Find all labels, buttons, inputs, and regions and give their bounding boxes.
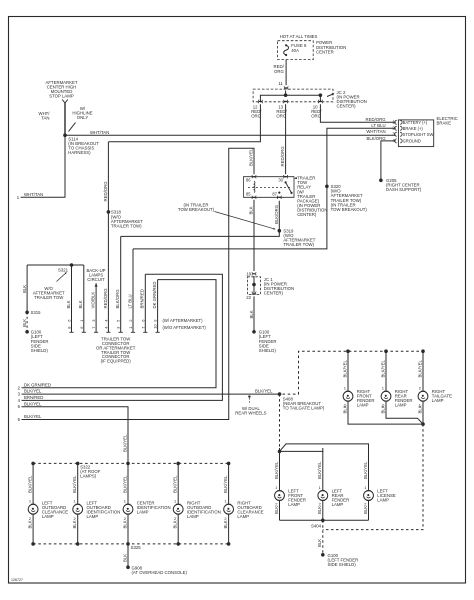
wire BLK/YEL LEFT OUTBOARD CLEARANCE LAMP: [28, 463, 34, 504]
splice S320: [325, 184, 367, 212]
lamp RIGHT TAILGATE LAMP: [418, 389, 452, 403]
svg-text:BLK/YEL: BLK/YEL: [122, 475, 127, 493]
wire RED/ORG JC2 pin 13 down to relay pin 30: [280, 104, 286, 174]
svg-text:BLK/YEL: BLK/YEL: [24, 414, 42, 419]
svg-text:BLK/YEL: BLK/YEL: [122, 434, 127, 452]
wire BLK down to S315: [22, 265, 27, 312]
svg-text:BLK: BLK: [363, 506, 368, 514]
svg-text:BLK: BLK: [66, 300, 71, 308]
splice S404: [311, 519, 325, 529]
svg-text:BLK: BLK: [342, 405, 347, 413]
svg-text:BLK: BLK: [173, 520, 178, 528]
junction block JC2 (in Power Distribution Center): [253, 89, 367, 109]
back-up lamps circuit arrow: [86, 268, 105, 287]
wire BLK S315 to ground G100 (dashed): [22, 312, 27, 332]
svg-text:CENTER): CENTER): [297, 212, 317, 217]
svg-text:LAMP: LAMP: [395, 403, 407, 408]
node rail junction at RIGHT FRONT lamp: [346, 349, 350, 353]
wire BLK JC1 pin 22 to ground G100: [249, 296, 254, 331]
wire BLK/ORG into trailer tow connector: [115, 236, 123, 332]
svg-text:LAMP: LAMP: [332, 502, 344, 507]
svg-text:(W/O AFTERMARKET): (W/O AFTERMARKET): [163, 325, 207, 330]
wire BLK dashed right lamps ground to S404: [323, 424, 423, 529]
wire BLK left lamps ground bus: [280, 519, 369, 521]
svg-text:BLK: BLK: [248, 206, 253, 214]
wire BLK right tailgate lamp to ground junction: [422, 401, 424, 424]
lamp CENTER IDENTIFICATION LAMP: [123, 501, 171, 515]
svg-text:TOW BREAKOUT): TOW BREAKOUT): [178, 207, 215, 212]
svg-text:22: 22: [246, 295, 251, 300]
splice S321 (w/o aftermarket trailer tow): [33, 263, 74, 300]
svg-text:S321: S321: [58, 267, 69, 272]
svg-text:TRAILER TOW): TRAILER TOW): [283, 242, 314, 247]
svg-text:BLK: BLK: [122, 554, 127, 562]
lamp LEFT OUTBOARD IDENTIFICATION LAMP: [73, 501, 121, 519]
wire BRN/RED into trailer tow connector: [140, 274, 148, 332]
svg-text:LT BLU: LT BLU: [371, 123, 385, 128]
svg-text:LAMP: LAMP: [237, 514, 249, 519]
svg-text:BLK/YEL: BLK/YEL: [223, 475, 228, 493]
svg-text:BLK: BLK: [417, 405, 422, 413]
ground G100 (left fender side shield) bottom: [321, 553, 358, 567]
wire BLK ground RIGHT OUTBOARD IDENTIFICATION LAMP: [173, 514, 179, 544]
wire BLK/YEL left edge row feeding roof lamps rail: [18, 401, 128, 463]
svg-text:SIDE SHIELD): SIDE SHIELD): [328, 562, 357, 567]
svg-text:BLK/YEL: BLK/YEL: [380, 359, 385, 377]
wire BLK into trailer tow connector: [66, 265, 74, 332]
electric brake controller box: [395, 116, 458, 147]
svg-text:LT BLU: LT BLU: [127, 294, 132, 308]
wire BLK/YEL feed RIGHT FRONT FENDER LAMP: [342, 351, 348, 391]
wire BLK/YEL RIGHT OUTBOARD IDENTIFICATION LAMP: [173, 463, 179, 504]
svg-text:40A: 40A: [291, 48, 299, 53]
node right lamps ground junction: [421, 422, 425, 426]
svg-text:TO TAILGATE LAMP): TO TAILGATE LAMP): [283, 405, 325, 410]
wire BLK ground LEFT OUTBOARD CLEARANCE LAMP: [28, 514, 34, 544]
svg-text:CENTER: CENTER: [316, 49, 334, 54]
svg-text:BLK: BLK: [223, 520, 228, 528]
wire WHT/TAN stop lamp down to S114: [39, 103, 65, 135]
svg-text:DK GRN/RED: DK GRN/RED: [24, 382, 51, 387]
svg-text:GROUND: GROUND: [403, 139, 421, 144]
W/ HIGHLINE ONLY note: [69, 106, 93, 132]
splice S315: [25, 310, 41, 315]
svg-text:TRAILER TOW): TRAILER TOW): [111, 224, 142, 229]
wire BLK ground LEFT LICENSE LAMP: [363, 500, 369, 520]
svg-text:BLK/YEL: BLK/YEL: [274, 461, 279, 479]
svg-text:BLK: BLK: [317, 539, 322, 547]
wire BLK right rear fender lamp to ground junction: [386, 401, 423, 424]
splice S114 (in breakout to chassis harness): [63, 133, 99, 155]
svg-text:BLK/YEL: BLK/YEL: [342, 359, 347, 377]
wire WHT/TAN S114 down-left to left edge pin 1: [17, 135, 65, 200]
svg-text:19: 19: [246, 271, 251, 276]
svg-text:TRAILER TOW: TRAILER TOW: [34, 295, 64, 300]
svg-text:LAMP: LAMP: [187, 514, 199, 519]
svg-text:LAMP: LAMP: [377, 497, 389, 502]
svg-text:VIO/BLK: VIO/BLK: [91, 292, 96, 309]
wire RED/ORG into trailer tow connector: [103, 142, 111, 332]
svg-text:STOP LAMP: STOP LAMP: [49, 94, 74, 99]
wire BLK S321 horizontal: [27, 264, 84, 266]
svg-text:BLK/ORG: BLK/ORG: [274, 204, 279, 224]
svg-text:CENTER): CENTER): [337, 104, 357, 109]
wire BLK ground RIGHT TAILGATE LAMP: [417, 402, 422, 413]
wire BLK ground LEFT FRONT FENDER LAMP: [274, 500, 280, 520]
wire RED/ORG JC2 pin 10 to electric brake pin 1: [320, 104, 395, 124]
wire BLK/YEL LEFT FRONT FENDER LAMP: [274, 448, 280, 491]
svg-text:WHT/TAN: WHT/TAN: [366, 129, 385, 134]
svg-text:SHIELD): SHIELD): [31, 348, 49, 353]
wire BLK/YEL dashed roof lamps feed rail: [33, 462, 229, 464]
splice S408 (near breakout to tailgate lamp): [278, 392, 325, 410]
svg-text:SHIELD): SHIELD): [259, 348, 277, 353]
JC2 pin 10 label: [311, 104, 322, 118]
svg-text:BATTERY (+): BATTERY (+): [403, 120, 428, 125]
svg-text:S404: S404: [311, 524, 322, 529]
svg-text:RED/ORG: RED/ORG: [103, 181, 108, 202]
wire BLK into trailer tow connector: [78, 265, 86, 332]
lamp LEFT REAR FENDER LAMP: [318, 488, 349, 507]
svg-text:87: 87: [272, 192, 277, 197]
svg-text:BLK/ORG: BLK/ORG: [115, 289, 120, 309]
wire BLK/ORG electric brake pin 4 to ground G205: [366, 136, 395, 181]
lamp RIGHT FRONT FENDER LAMP: [343, 389, 374, 408]
svg-text:BLK/YEL: BLK/YEL: [417, 359, 422, 377]
node rail junctions RIGHT OUTBOARD IDENTIFICATION LAMP: [176, 462, 180, 466]
svg-text:BLK/YEL: BLK/YEL: [28, 475, 33, 493]
svg-text:STOPLIGHT SW: STOPLIGHT SW: [403, 132, 434, 137]
wire BRN/RED connector to left edge row 4: [18, 274, 223, 403]
wire RED/ORG fuse to JC2 pin 11: [274, 60, 289, 90]
svg-text:BLK: BLK: [72, 520, 77, 528]
lamp LEFT FRONT FENDER LAMP: [275, 488, 306, 507]
svg-text:CENTER): CENTER): [264, 291, 284, 296]
svg-text:30: 30: [278, 178, 283, 183]
node rail junction at RIGHT REAR lamp: [384, 349, 388, 353]
svg-text:BRAKE: BRAKE: [437, 121, 452, 126]
lamp LEFT OUTBOARD CLEARANCE LAMP: [28, 501, 68, 519]
svg-text:REAR WHEELS: REAR WHEELS: [235, 411, 266, 416]
svg-text:BLK/YEL: BLK/YEL: [363, 461, 368, 479]
svg-text:RED/ORG: RED/ORG: [366, 117, 387, 122]
svg-text:RED/ORG: RED/ORG: [280, 146, 285, 167]
svg-text:BLK: BLK: [22, 285, 27, 293]
svg-text:BLK: BLK: [249, 310, 254, 318]
wire BLK ground RIGHT REAR FENDER LAMP: [380, 402, 385, 413]
svg-text:RED/ORG: RED/ORG: [103, 288, 108, 309]
svg-text:(AT OVERHEAD CONSOLE): (AT OVERHEAD CONSOLE): [132, 570, 188, 575]
svg-text:LAMP: LAMP: [87, 514, 99, 519]
svg-text:BLK/YEL: BLK/YEL: [24, 401, 42, 406]
svg-text:BRAKE (+): BRAKE (+): [403, 126, 424, 131]
wire BLK ground CENTER IDENTIFICATION LAMP: [122, 514, 128, 544]
wire BLK/YEL LEFT OUTBOARD IDENTIFICATION LAMP: [72, 463, 78, 504]
wire BLK/YEL feed RIGHT TAILGATE LAMP: [417, 351, 423, 391]
wire BLK/YEL dashed S408 down to left lamps feed: [279, 394, 281, 451]
wire BLK/YEL feed RIGHT REAR FENDER LAMP: [380, 351, 386, 391]
ground G908 (at overhead console): [126, 565, 187, 575]
svg-text:BLK: BLK: [317, 506, 322, 514]
wire LT BLU electric brake pin 2 down through S320: [133, 123, 396, 249]
svg-text:LAMP: LAMP: [357, 403, 369, 408]
(in trailer tow breakout) note with leader to S319: [178, 202, 276, 229]
svg-text:BLK/YEL: BLK/YEL: [317, 461, 322, 479]
svg-text:BRN/RED: BRN/RED: [24, 395, 43, 400]
wire BLK ground RIGHT FRONT FENDER LAMP: [342, 402, 347, 413]
svg-text:BLK: BLK: [380, 405, 385, 413]
node rail junctions CENTER IDENTIFICATION LAMP: [126, 462, 130, 466]
node rail junctions LEFT OUTBOARD CLEARANCE LAMP: [31, 462, 35, 466]
connector pin numbers (w/o aftermarket row): [67, 324, 207, 330]
wire DK GRN/RED connector to left edge row 2: [18, 280, 216, 391]
svg-text:DASH SUPPORT): DASH SUPPORT): [386, 187, 422, 192]
svg-text:BLK: BLK: [274, 506, 279, 514]
svg-text:BRN/RED: BRN/RED: [140, 289, 145, 308]
wire BLK/YEL RIGHT OUTBOARD CLEARANCE LAMP: [223, 463, 229, 504]
wire BLK/YEL CENTER IDENTIFICATION LAMP: [122, 463, 128, 504]
wire BLK/YEL feed branch to left rear fender lamp riser: [280, 450, 323, 453]
wire BLK ground RIGHT OUTBOARD CLEARANCE LAMP: [223, 514, 229, 544]
wire BLK/ORG relay pin 87 down through S319 to connector riser: [121, 201, 280, 237]
svg-text:LAMP: LAMP: [288, 502, 300, 507]
svg-text:BLK: BLK: [28, 520, 33, 528]
wire DK GRN/RED into trailer tow connector: [152, 280, 160, 333]
connector pin numbers (w/ aftermarket row): [67, 318, 204, 323]
wire BLK ground LEFT OUTBOARD IDENTIFICATION LAMP: [72, 514, 78, 544]
trailer tow connector label: [96, 337, 136, 364]
wire BLK dashed S404 to ground G100: [317, 520, 323, 555]
splice S318 (w/o aftermarket trailer tow): [107, 210, 144, 229]
wire BLK ground LEFT REAR FENDER LAMP: [317, 500, 323, 520]
svg-text:WHT/TAN: WHT/TAN: [24, 192, 43, 197]
svg-text:ORG: ORG: [274, 69, 284, 74]
node left lamps feed junction: [278, 450, 282, 454]
ground G100 (left fender side shield) at JC1: [252, 330, 276, 353]
wire BLK dashed roof lamps ground rail: [33, 543, 229, 545]
svg-text:(W/ AFTERMARKET): (W/ AFTERMARKET): [163, 318, 204, 323]
splice S322 (at roof lamps): [80, 464, 101, 478]
wire BLK/YEL LEFT LICENSE LAMP: [363, 448, 369, 491]
lamp RIGHT OUTBOARD CLEARANCE LAMP: [224, 501, 264, 519]
svg-text:BLK/YEL: BLK/YEL: [255, 389, 273, 394]
svg-text:126727: 126727: [11, 578, 23, 582]
svg-text:DK GRN/RED: DK GRN/RED: [152, 282, 157, 309]
wire WHT/TAN S114 to electric brake pin 3: [65, 129, 396, 136]
svg-text:LAMPS): LAMPS): [80, 473, 97, 478]
svg-text:CIRCUIT: CIRCUIT: [87, 277, 105, 282]
w/ dual rear wheels note: [235, 395, 266, 415]
svg-text:BLK/YEL: BLK/YEL: [173, 475, 178, 493]
svg-text:HOT AT ALL TIMES: HOT AT ALL TIMES: [280, 34, 318, 39]
node rail junctions LEFT OUTBOARD IDENTIFICATION LAMP: [76, 462, 80, 466]
svg-text:LAMP: LAMP: [432, 398, 444, 403]
ground G100 (left fender side shield) lower left: [25, 330, 48, 353]
svg-text:11: 11: [278, 81, 283, 86]
wire RED/ORG JC2 pin 12 to trailer tow connector riser: [108, 104, 260, 142]
svg-text:TAN: TAN: [41, 115, 49, 120]
svg-text:BLK: BLK: [22, 319, 27, 327]
svg-text:TOW BREAKOUT): TOW BREAKOUT): [331, 207, 368, 212]
aftermarket center high mounted stop lamp terminal: [46, 80, 78, 103]
wire BLK relay pin 85 down to JC1 pin 19: [248, 200, 254, 271]
junction block JC1 (in Power Distribution Center): [246, 271, 294, 300]
wire BLK/YEL left edge row 3 to S408: [18, 389, 280, 397]
JC2 pin 13 label: [276, 104, 287, 118]
svg-text:ONLY: ONLY: [77, 115, 89, 120]
svg-text:85: 85: [246, 192, 251, 197]
svg-text:WHT/TAN: WHT/TAN: [90, 130, 109, 135]
wire BLK/YEL relay pin 86 up and across to lower rows: [18, 148, 254, 422]
wire VIO/BLK into trailer tow connector: [91, 283, 99, 332]
svg-text:BLK: BLK: [78, 300, 83, 308]
svg-text:(IF EQUIPPED): (IF EQUIPPED): [101, 359, 132, 364]
wire BLK/YEL LEFT REAR FENDER LAMP: [317, 448, 323, 491]
svg-text:BLK/YEL: BLK/YEL: [72, 475, 77, 493]
JC2 pin 12 label: [251, 104, 262, 118]
svg-text:BLK: BLK: [122, 520, 127, 528]
svg-text:BLK/YEL: BLK/YEL: [248, 148, 253, 166]
splice S325: [131, 545, 142, 550]
wire BLK/YEL feed branch to left license lamp riser: [280, 444, 369, 452]
fuse F8 40A (in Power Distribution Center): [278, 34, 347, 60]
svg-text:10: 10: [153, 324, 158, 329]
svg-text:LAMP: LAMP: [42, 514, 54, 519]
wire BLK S325 to ground G908: [122, 544, 128, 567]
wire BLK right front fender lamp to ground junction: [348, 401, 423, 424]
svg-text:86: 86: [246, 178, 251, 183]
node rail junction at RIGHT TAILGATE lamp: [421, 349, 425, 353]
ground G205 (right center dash support): [379, 178, 422, 192]
wire BLK/YEL S408 dashed branch to right lamps rail: [283, 351, 424, 394]
lamp LEFT LICENSE LAMP: [364, 488, 396, 502]
svg-text:S325: S325: [131, 545, 142, 550]
trailer tow relay (w/ trailer package, in Power Distribution Center): [244, 175, 295, 199]
lamp RIGHT OUTBOARD IDENTIFICATION LAMP: [173, 501, 221, 519]
svg-text:BLK/ORG: BLK/ORG: [366, 136, 386, 141]
svg-text:HARNESS): HARNESS): [68, 150, 91, 155]
svg-text:LAMP: LAMP: [137, 510, 149, 515]
splice S319 (w/o aftermarket trailer tow): [278, 228, 316, 247]
node rail junctions RIGHT OUTBOARD CLEARANCE LAMP: [227, 462, 231, 466]
wire LT BLU into trailer tow connector: [127, 249, 135, 332]
svg-text:BLK/YEL: BLK/YEL: [24, 389, 42, 394]
lamp RIGHT REAR FENDER LAMP: [381, 389, 412, 408]
relay label with arrow: [294, 176, 327, 217]
svg-text:S315: S315: [31, 310, 42, 315]
